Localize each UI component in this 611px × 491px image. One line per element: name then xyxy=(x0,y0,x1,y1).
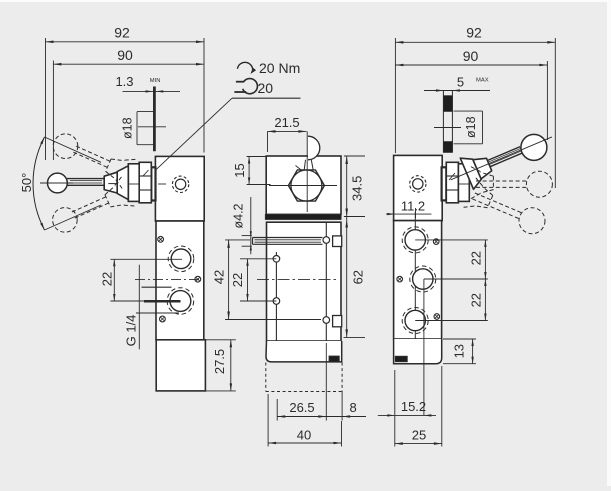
svg-text:15: 15 xyxy=(232,163,247,177)
svg-text:22: 22 xyxy=(469,293,484,307)
right lever washer at body xyxy=(442,167,447,200)
right lever shaft xyxy=(487,147,522,167)
lever pivot tick line xyxy=(138,126,166,128)
svg-text:8: 8 xyxy=(350,400,357,415)
label 20 Nm xyxy=(259,60,300,76)
right lever axis line xyxy=(451,137,552,180)
right lever center dash xyxy=(434,127,461,129)
left view body top section xyxy=(155,156,204,221)
right lever cone ring xyxy=(458,164,469,202)
left view body mid section xyxy=(156,221,204,340)
dim 92 left view xyxy=(46,25,205,161)
svg-text:15.2: 15.2 xyxy=(401,399,426,414)
middle view tab lower xyxy=(333,316,342,327)
dim 40 xyxy=(268,394,341,447)
right lever hex nut xyxy=(446,162,458,203)
svg-text:22: 22 xyxy=(230,273,245,287)
middle view base black insert xyxy=(329,356,339,362)
middle view hex nut xyxy=(288,170,324,201)
left view port center line xyxy=(135,279,202,281)
right view port column line xyxy=(414,212,416,340)
svg-text:42: 42 xyxy=(212,270,227,284)
dim 62 xyxy=(344,217,366,338)
dim 27.5 xyxy=(206,340,236,391)
dim 26.5 xyxy=(277,343,326,421)
right dashed lever horizontal xyxy=(469,166,552,200)
middle view screw bottom-left xyxy=(273,298,280,305)
right view base black insert xyxy=(395,356,407,361)
svg-text:11.2: 11.2 xyxy=(401,199,425,214)
lever center line xyxy=(40,182,73,184)
svg-text:MAX: MAX xyxy=(476,77,489,83)
label 20 xyxy=(258,80,274,96)
wrench icon xyxy=(234,79,257,94)
dim 21.5 xyxy=(268,115,307,152)
lever shaft xyxy=(67,179,104,186)
middle view center line horizontal xyxy=(269,185,337,187)
middle view sub-base dashed xyxy=(266,363,342,392)
dim 90 left view xyxy=(53,47,204,160)
middle view gasket band xyxy=(265,214,341,219)
lever hex nut xyxy=(139,162,151,203)
svg-text:13: 13 xyxy=(452,344,467,358)
swing arc leg upper xyxy=(45,137,102,162)
dim G 1/4 xyxy=(124,265,181,350)
svg-text:26.5: 26.5 xyxy=(289,400,314,415)
left view screw right xyxy=(195,276,201,282)
middle view knob dome xyxy=(308,136,320,160)
dim 1.3 MIN xyxy=(115,74,180,93)
dim 25 xyxy=(395,366,442,447)
left view screw top xyxy=(158,236,164,242)
dim 42 xyxy=(212,240,322,320)
middle view main body xyxy=(267,222,342,341)
svg-text:34.5: 34.5 xyxy=(350,176,365,201)
right view screw 1 xyxy=(433,239,439,245)
lever collar block xyxy=(104,172,117,193)
svg-text:90: 90 xyxy=(463,48,479,64)
right view screw 2 xyxy=(397,276,403,282)
middle view center line vertical xyxy=(306,131,308,212)
left view lower port xyxy=(167,288,194,315)
svg-text:27.5: 27.5 xyxy=(212,349,227,374)
dim 13 xyxy=(443,339,476,364)
svg-text:90: 90 xyxy=(117,47,133,63)
svg-text:92: 92 xyxy=(466,25,482,41)
svg-text:92: 92 xyxy=(114,25,130,41)
middle view screw top-right xyxy=(323,237,330,244)
dim 90 right view xyxy=(395,48,547,140)
svg-text:50°: 50° xyxy=(19,173,34,193)
svg-text:25: 25 xyxy=(412,428,426,443)
travel column 5 MAX xyxy=(443,91,452,153)
right view port 3 xyxy=(402,308,428,334)
right view body bottom section xyxy=(394,339,442,364)
dim 22 middle view xyxy=(230,259,276,301)
dim 22 left view xyxy=(100,259,183,301)
torque icon xyxy=(237,62,256,74)
dashed lever position down xyxy=(53,134,137,190)
dim 8 xyxy=(326,392,366,421)
dim 11.2 xyxy=(386,199,431,219)
lever washer at body xyxy=(151,167,155,200)
left view pilot center line xyxy=(158,183,166,185)
right view screw 3 xyxy=(434,314,440,320)
dim 34.5 xyxy=(344,156,365,217)
svg-text:1.3: 1.3 xyxy=(115,74,133,89)
left view screw bottom xyxy=(160,316,166,322)
right lever boot cone xyxy=(460,158,481,189)
svg-text:ø4.2: ø4.2 xyxy=(231,203,245,228)
dim 15.2 xyxy=(378,279,436,447)
right view port 1 xyxy=(402,227,428,253)
svg-text:MIN: MIN xyxy=(150,78,161,84)
svg-text:22: 22 xyxy=(100,272,115,286)
right lever collar block xyxy=(473,158,492,179)
right view body mid section xyxy=(394,221,442,339)
lever rubber boot cone xyxy=(117,166,128,200)
middle view screw column right xyxy=(325,222,327,341)
middle view screw bottom-right xyxy=(323,317,330,324)
svg-text:ø18: ø18 xyxy=(464,116,478,138)
middle view base flange xyxy=(266,341,342,362)
dim 92 right view xyxy=(395,25,555,189)
lever cone ring xyxy=(128,164,139,202)
dim 22 22 right view xyxy=(415,240,488,321)
svg-text:40: 40 xyxy=(297,428,311,443)
right view body top section xyxy=(394,155,443,220)
lever travel mark thick line xyxy=(153,87,156,152)
swing arc 50 deg xyxy=(33,137,44,230)
svg-text:21.5: 21.5 xyxy=(274,115,299,130)
svg-text:G 1/4: G 1/4 xyxy=(124,315,139,347)
svg-text:ø18: ø18 xyxy=(120,117,134,139)
svg-text:20: 20 xyxy=(258,80,274,96)
left view body bottom section xyxy=(156,340,205,391)
left view upper port xyxy=(168,246,194,272)
middle view pin slot xyxy=(253,238,323,245)
svg-text:22: 22 xyxy=(469,251,484,265)
middle view screw top-left xyxy=(273,255,280,262)
dim 5 MAX xyxy=(424,74,490,91)
left view pilot hole xyxy=(172,176,188,192)
dim dia18 right view xyxy=(454,111,483,144)
dim dia18 left view xyxy=(120,112,154,145)
dashed lever position up xyxy=(53,175,137,232)
right lever ball knob xyxy=(521,134,547,160)
label leader line xyxy=(155,98,300,170)
middle view bonnet xyxy=(266,156,341,214)
label 50deg xyxy=(19,173,34,193)
middle view screw column left xyxy=(275,252,277,341)
right dashed lever down xyxy=(461,176,545,233)
lever ball knob xyxy=(48,173,68,193)
middle view tab upper xyxy=(333,236,342,247)
svg-text:62: 62 xyxy=(351,270,366,284)
swing arc leg lower xyxy=(45,205,102,230)
dim 15 xyxy=(232,157,271,185)
right view pilot hole xyxy=(410,176,426,192)
svg-text:5: 5 xyxy=(457,74,464,89)
middle view body center line xyxy=(257,278,338,280)
right view port 2 xyxy=(410,266,436,292)
svg-text:20 Nm: 20 Nm xyxy=(259,60,300,76)
middle view stem xyxy=(296,160,314,173)
dim dia4.2 xyxy=(231,197,252,254)
